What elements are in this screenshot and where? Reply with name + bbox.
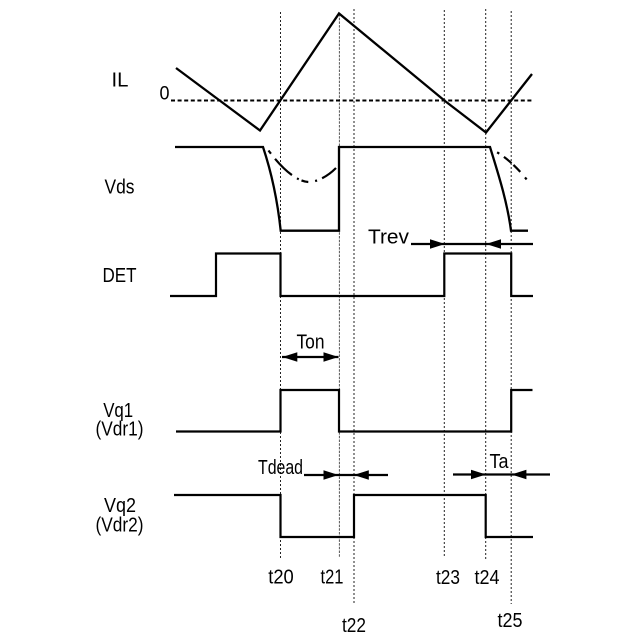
time marker line t21: [338, 14, 340, 557]
svg-text:(Vdr2): (Vdr2): [96, 515, 144, 537]
zero axis dashed line: [171, 100, 533, 102]
waveform Vq1 gate drive 1: [176, 390, 533, 432]
Tdead left arrowhead at t22: [354, 470, 369, 480]
svg-text:t20: t20: [268, 567, 294, 589]
time marker line t23: [443, 10, 445, 558]
Ton right arrowhead at t21: [324, 352, 339, 362]
Vds dash-dot resonant arc 2: [493, 150, 528, 181]
svg-text:t25: t25: [498, 610, 523, 632]
Ton left arrowhead at t20: [282, 352, 297, 362]
svg-text:Vds: Vds: [105, 177, 135, 199]
waveform DET detection signal: [170, 254, 533, 297]
svg-text:Trev: Trev: [368, 227, 409, 249]
waveform Vds drain-source voltage: [175, 147, 528, 231]
svg-text:Tdead: Tdead: [258, 457, 303, 479]
time marker line t22: [353, 9, 355, 603]
Ta right arrowhead at t24: [471, 470, 486, 480]
svg-text:Ta: Ta: [490, 451, 510, 473]
svg-text:t24: t24: [475, 567, 500, 589]
Vds dash-dot resonant arc 1: [269, 151, 337, 183]
Ton dimension double arrow between t20 and t21: [282, 356, 339, 358]
svg-text:DET: DET: [103, 265, 137, 287]
time marker line t24: [485, 9, 487, 561]
waveform Vq2 gate drive 2: [174, 495, 533, 537]
svg-text:t23: t23: [436, 567, 460, 589]
Ta left arrowhead at t25: [511, 470, 526, 480]
Trev right arrowhead at t23: [430, 239, 445, 249]
Ta dimension line: [453, 473, 550, 475]
svg-text:t22: t22: [342, 615, 366, 637]
Tdead dimension line: [304, 474, 388, 476]
time marker line t20: [280, 12, 282, 558]
Trev dimension line: [411, 243, 533, 245]
time marker line t25: [510, 11, 512, 604]
svg-text:IL: IL: [112, 70, 129, 92]
Trev left arrowhead at t24: [486, 239, 501, 249]
svg-text:Ton: Ton: [297, 332, 325, 354]
Tdead right arrowhead at t21: [324, 470, 339, 480]
svg-text:t21: t21: [321, 567, 344, 589]
waveform IL inductor current: [176, 14, 532, 133]
svg-text:0: 0: [160, 84, 170, 105]
svg-text:(Vdr1): (Vdr1): [96, 419, 144, 441]
